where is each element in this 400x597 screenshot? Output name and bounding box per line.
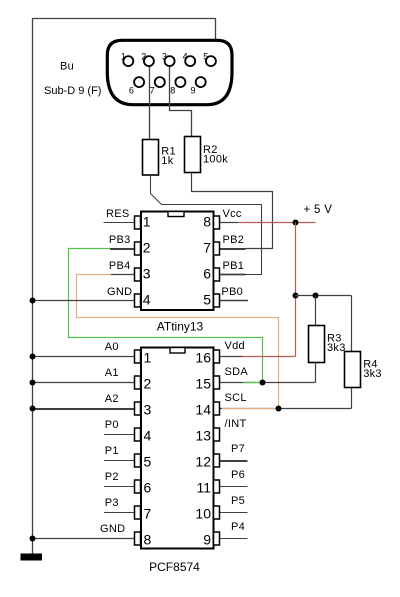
svg-text:7: 7 [144, 505, 152, 521]
ATtiny pin 7 box [214, 242, 220, 255]
svg-text:100k: 100k [203, 154, 228, 166]
svg-text:6: 6 [203, 266, 211, 282]
svg-text:6: 6 [129, 86, 134, 96]
ATtiny pin 1 box [135, 216, 141, 229]
svg-text:4: 4 [183, 51, 188, 61]
svg-text:3: 3 [143, 266, 151, 282]
wire PB4 black part [111, 274, 135, 276]
resistor R2 [185, 137, 201, 173]
svg-text:4: 4 [143, 292, 151, 308]
PCF pin 8 box [135, 532, 141, 545]
wire P1 stub [104, 460, 135, 462]
svg-text:2: 2 [144, 375, 152, 391]
wire RES stub [104, 222, 135, 224]
svg-text:3k3: 3k3 [327, 342, 346, 354]
ATtiny pin 6 box [214, 268, 220, 281]
junction R3 branch [313, 293, 319, 299]
wire green stub on SDA [243, 382, 263, 384]
svg-text:P2: P2 [105, 471, 119, 483]
wire SDA [220, 382, 316, 384]
wire branch to R3 R4 [296, 295, 352, 297]
junction rail A2 [30, 406, 36, 412]
wire SCL [220, 408, 352, 410]
svg-text:PB3: PB3 [109, 234, 131, 246]
wire P7 stub [220, 460, 248, 462]
wire R2 bottom to ATtiny PB2 [192, 173, 273, 249]
wire red vertical [295, 223, 297, 357]
svg-text:Vcc: Vcc [223, 208, 242, 220]
junction SDA green [260, 380, 266, 386]
junction rail ATtiny GND [30, 298, 36, 304]
PCF pin 16 box [214, 350, 220, 363]
PCF pin 11 box [214, 480, 220, 493]
svg-text:+ 5 V: + 5 V [304, 204, 333, 216]
svg-text:5: 5 [203, 292, 211, 308]
svg-text:PB4: PB4 [109, 260, 131, 272]
svg-text:P1: P1 [105, 445, 119, 457]
svg-text:A0: A0 [105, 341, 119, 353]
PCF pin 2 box [135, 376, 141, 389]
wire R1 bottom to ATtiny PB1 [151, 175, 262, 275]
svg-text:Bu: Bu [60, 61, 74, 73]
svg-text:13: 13 [195, 427, 211, 443]
wire PB3 green [69, 249, 263, 383]
IC U2 PCF8574 body [141, 348, 214, 549]
wire Dsub pin2 to R1 [149, 63, 151, 140]
wire PB4 orange [77, 275, 279, 409]
wire P3 stub [104, 512, 135, 514]
svg-text:4: 4 [144, 427, 152, 443]
svg-text:5: 5 [144, 453, 152, 469]
wire A1 to rail [33, 382, 135, 384]
wire P5 stub [220, 512, 248, 514]
PCF pin 13 box [214, 428, 220, 441]
svg-text:3: 3 [162, 51, 167, 61]
svg-text:1: 1 [143, 214, 151, 230]
wire P2 stub [104, 486, 135, 488]
PCF pin 3 box [135, 402, 141, 415]
resistor R3 [309, 326, 325, 363]
junction +5V [293, 220, 299, 226]
wire orange stub on SCL [222, 408, 279, 410]
Dsub hole pin 3 [165, 56, 175, 66]
ATtiny pin 3 box [135, 268, 141, 281]
wire PB3 black part [110, 248, 135, 250]
svg-text:1: 1 [121, 51, 126, 61]
svg-text:9: 9 [191, 86, 196, 96]
Dsub hole pin 5 [206, 56, 216, 66]
wire Dsub pin3 to R2 [170, 63, 192, 137]
svg-text:1k: 1k [161, 155, 173, 167]
svg-text:ATtiny13: ATtiny13 [157, 319, 204, 333]
junction rail A0 [30, 354, 36, 360]
Dsub hole pin 6 [134, 77, 144, 87]
ATtiny pin 5 box [214, 294, 220, 307]
svg-text:GND: GND [100, 523, 125, 535]
PCF pin 5 box [135, 454, 141, 467]
wire P6 stub [220, 486, 248, 488]
wire GND to rail [33, 538, 135, 540]
wire Vcc red [220, 222, 239, 224]
svg-text:SCL: SCL [225, 392, 247, 404]
PCF pin 14 box [214, 402, 220, 415]
svg-text:3k3: 3k3 [363, 368, 382, 380]
PCF pin 12 box [214, 454, 220, 467]
svg-text:12: 12 [195, 453, 211, 469]
svg-text:2: 2 [141, 51, 146, 61]
svg-text:7: 7 [203, 240, 211, 256]
svg-text:PB0: PB0 [221, 286, 243, 298]
ATtiny pin 2 box [135, 242, 141, 255]
svg-text:PB2: PB2 [223, 234, 245, 246]
svg-text:/INT: /INT [225, 418, 247, 430]
svg-text:PB1: PB1 [223, 260, 245, 272]
svg-text:16: 16 [195, 349, 211, 365]
IC U1 ATtiny13 body [141, 212, 214, 311]
ground symbol [21, 554, 43, 561]
resistor R4 [345, 352, 361, 388]
PCF pin 1 box [135, 350, 141, 363]
svg-text:SDA: SDA [225, 366, 249, 378]
svg-text:9: 9 [203, 531, 211, 547]
svg-text:A1: A1 [105, 367, 119, 379]
PCF pin 15 box [214, 376, 220, 389]
resistor R1 [143, 140, 159, 176]
svg-text:14: 14 [195, 401, 211, 417]
svg-text:10: 10 [195, 505, 211, 521]
wire ATtiny GND to rail [33, 300, 135, 302]
wire R4 bottom to SCL [351, 388, 353, 409]
PCF notch [170, 348, 185, 354]
wire R3 bottom to SDA [315, 363, 317, 383]
ATtiny pin 4 box [135, 294, 141, 307]
svg-text:P3: P3 [105, 497, 119, 509]
wire R3 top [315, 296, 317, 326]
wire A2 to rail [33, 408, 135, 410]
PCF pin 6 box [135, 480, 141, 493]
wire PB0 stub [220, 300, 249, 302]
svg-text:RES: RES [106, 208, 130, 220]
junction red branch [293, 293, 299, 299]
connector Bu Sub-D 9 (F) outline [107, 40, 232, 104]
svg-text:A2: A2 [105, 393, 119, 405]
svg-text:P7: P7 [231, 443, 245, 455]
svg-text:1: 1 [144, 349, 152, 365]
svg-text:P4: P4 [231, 521, 245, 533]
PCF pin 4 box [135, 428, 141, 441]
wire P4 stub [220, 538, 248, 540]
wire ground rail and top wire to Dsub pin5 [33, 19, 216, 554]
Dsub hole pin 8 [175, 77, 185, 87]
svg-text:GND: GND [107, 286, 132, 298]
ATtiny pin 8 box [214, 216, 220, 229]
junction rail A1 [30, 380, 36, 386]
svg-text:6: 6 [144, 479, 152, 495]
svg-text:3: 3 [144, 401, 152, 417]
svg-text:PCF8574: PCF8574 [149, 560, 200, 574]
svg-text:15: 15 [195, 375, 211, 391]
svg-text:5: 5 [203, 51, 208, 61]
PCF pin 9 box [214, 532, 220, 545]
svg-text:8: 8 [203, 214, 211, 230]
svg-text:7: 7 [150, 86, 155, 96]
svg-text:P6: P6 [231, 469, 245, 481]
junction rail GND [30, 536, 36, 542]
wire P0 stub [104, 434, 135, 436]
svg-text:8: 8 [144, 531, 152, 547]
wire A0 to rail [33, 356, 135, 358]
svg-text:8: 8 [170, 86, 175, 96]
svg-text:P0: P0 [105, 419, 119, 431]
wire R4 top [351, 296, 353, 352]
wire Vdd red [220, 356, 243, 358]
Dsub hole pin 2 [144, 56, 154, 66]
svg-text:Sub-D 9 (F): Sub-D 9 (F) [44, 85, 101, 97]
PCF pin 10 box [214, 506, 220, 519]
Dsub hole pin 4 [185, 56, 195, 66]
ATtiny notch [168, 212, 184, 217]
junction SCL orange [276, 406, 282, 412]
svg-text:2: 2 [143, 240, 151, 256]
PCF pin 7 box [135, 506, 141, 519]
Dsub hole pin 7 [155, 77, 165, 87]
Dsub hole pin 9 [196, 77, 206, 87]
Dsub hole pin 1 [123, 56, 133, 66]
svg-text:P5: P5 [231, 495, 245, 507]
svg-text:Vdd: Vdd [225, 340, 245, 352]
svg-text:11: 11 [196, 479, 211, 495]
